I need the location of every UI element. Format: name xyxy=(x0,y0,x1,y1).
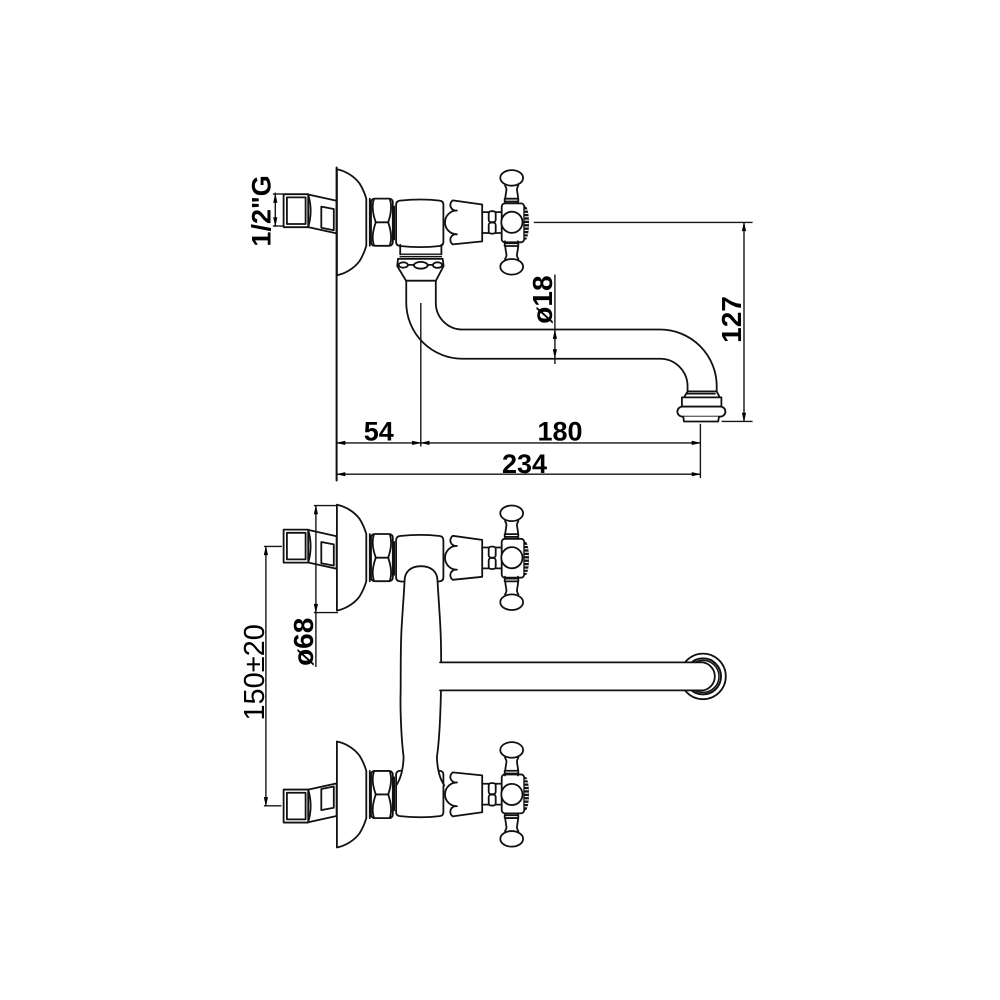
svg-text:1/2"G: 1/2"G xyxy=(246,175,276,246)
body neck base double line xyxy=(400,254,441,256)
arrow 234 left xyxy=(336,472,346,476)
dim 150 tick bottom xyxy=(264,805,282,807)
collar bead left xyxy=(399,262,408,267)
dim phi18 line xyxy=(554,275,556,365)
svg-text:ø18: ø18 xyxy=(527,275,558,323)
arrow phi68 up xyxy=(314,505,318,514)
collar bead right xyxy=(433,262,442,268)
dim phi68 line xyxy=(315,506,317,667)
arrow 234 right xyxy=(692,472,702,476)
arrow 180 right xyxy=(692,441,702,445)
lower inlet connection assembly (mirrored) xyxy=(284,742,529,848)
inlet connection assembly with handle (side view) xyxy=(284,169,529,275)
svg-text:54: 54 xyxy=(364,417,394,447)
outlet cushion xyxy=(677,407,725,417)
arrow phi18 up xyxy=(553,329,557,339)
dim phi68 tick bottom xyxy=(314,612,338,614)
arrow 127 down xyxy=(742,413,746,423)
wall line xyxy=(336,168,338,481)
arrow 150 up xyxy=(264,546,268,556)
arrow phi68 down xyxy=(314,604,318,614)
decorative collar xyxy=(397,259,443,281)
outlet outer ring (plan) xyxy=(680,654,726,700)
spout outer edge (down pipe, elbow, under side, right elbow) xyxy=(406,281,687,392)
arrow 180 left xyxy=(420,441,430,445)
dim 54-180 line xyxy=(337,442,701,444)
svg-text:234: 234 xyxy=(502,449,547,479)
dim 1/2"G tick top xyxy=(273,193,283,195)
dim 127 extension bottom xyxy=(722,420,753,422)
body lower neck xyxy=(400,245,441,255)
outlet inner ring xyxy=(687,660,719,692)
collar mid line xyxy=(398,264,444,266)
outlet flare line xyxy=(686,393,715,395)
dim 150 line xyxy=(265,546,267,805)
svg-text:150±20: 150±20 xyxy=(239,624,271,721)
arrow 1/2G down xyxy=(273,217,277,227)
arrow 54 left xyxy=(336,441,346,445)
down pipe centerline xyxy=(420,303,422,447)
dim 234 line xyxy=(337,473,701,475)
arrow phi18 down xyxy=(553,349,557,359)
dim 127 extension top xyxy=(534,221,753,223)
dim phi68 tick top xyxy=(314,505,336,507)
dim 127 line xyxy=(743,222,745,421)
dim 1/2"G tick bottom xyxy=(273,225,283,227)
arrow 54 right xyxy=(412,441,422,445)
dim 150 tick top xyxy=(264,545,282,547)
arrow 1/2G up xyxy=(273,193,277,203)
outlet centerline xyxy=(699,424,701,478)
svg-text:127: 127 xyxy=(716,296,747,343)
spout inner edge xyxy=(436,281,717,392)
arrow 127 up xyxy=(742,222,746,232)
svg-text:ø68: ø68 xyxy=(288,618,319,666)
outlet middle ring xyxy=(685,658,721,694)
svg-text:180: 180 xyxy=(537,417,582,447)
arrow 150 down xyxy=(264,797,268,807)
spout tube (plan) with end cap xyxy=(440,662,715,690)
outlet flare cone xyxy=(684,391,720,397)
collar bead center xyxy=(414,262,428,269)
upper inlet connection assembly xyxy=(284,505,529,611)
outlet ring xyxy=(682,397,722,406)
dim 1/2"G line xyxy=(274,193,276,227)
aerator face xyxy=(683,417,719,422)
central body column xyxy=(396,566,444,785)
